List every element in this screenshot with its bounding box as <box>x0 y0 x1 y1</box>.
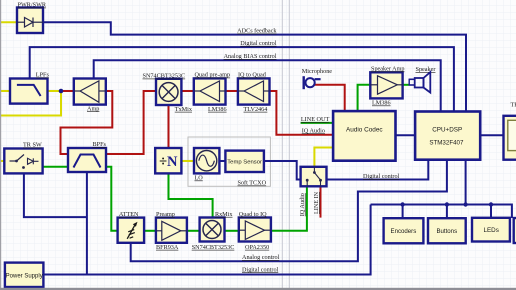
wire yellow divider N to LO <box>181 160 194 162</box>
IC Audio Codec <box>333 111 395 161</box>
amplifier Amp <box>74 79 106 113</box>
wire red Microphone to Audio Codec <box>315 85 345 111</box>
oscillator LO <box>194 148 219 182</box>
svg-text:Preamp: Preamp <box>156 211 175 218</box>
svg-text:SN74CBT3253C: SN74CBT3253C <box>192 244 235 251</box>
svg-text:LINE IN: LINE IN <box>313 191 320 214</box>
wire green Preamp to RxMix <box>187 230 200 232</box>
svg-text:LINE OUT: LINE OUT <box>301 116 330 123</box>
wire red IQ Audio IQ to Quad to Audio Codec <box>270 91 334 135</box>
wire navy bus drop to Buttons <box>446 205 448 219</box>
wire green Audio Codec to Speaker Amp <box>358 85 371 111</box>
svg-text:Speaker: Speaker <box>416 66 436 73</box>
wire Digital control LPFs to CPU <box>30 47 454 111</box>
mixer RxMix SN74CBT3253C <box>192 211 235 251</box>
wire navy Analog control ATTEN to CPU <box>131 160 447 262</box>
wire green divider N to RxMix <box>169 173 213 217</box>
filter BPFs <box>68 141 107 172</box>
wire navy bus drop to Encoders <box>402 205 404 219</box>
wire red LINE IN stub below switch <box>320 186 322 217</box>
svg-text:TR SW: TR SW <box>23 142 42 149</box>
amplifier Speaker Amp LM386 <box>370 66 404 107</box>
svg-text:Buttons: Buttons <box>436 228 457 235</box>
wire yellow TR SW antenna stub <box>0 160 4 162</box>
svg-text:LM386: LM386 <box>208 106 227 113</box>
svg-text:BPFs: BPFs <box>93 141 107 148</box>
svg-text:LO: LO <box>195 175 204 182</box>
wire navy peripheral bus <box>371 205 512 219</box>
wire red Amp to BPFs left <box>61 91 113 154</box>
svg-text:Analog control: Analog control <box>242 254 280 261</box>
divider U divN <box>155 148 181 173</box>
wire red junction to Amp <box>61 90 74 92</box>
filter LPFs <box>10 72 49 104</box>
node junction LPF output <box>59 89 64 94</box>
wire navy TR SW bottom to BPF vertical <box>24 173 87 217</box>
wire red TxMix to Quad pre-amp <box>181 90 193 92</box>
display TFT <box>504 102 516 160</box>
svg-text:Quad pre-amp: Quad pre-amp <box>195 72 231 79</box>
page edge left <box>0 0 1 290</box>
amplifier IQ to Quad TLV2464 <box>238 72 270 113</box>
wire red TxMix to divider N <box>168 106 170 149</box>
svg-text:OPA2350: OPA2350 <box>245 244 269 251</box>
svg-text:Analog BIAS control: Analog BIAS control <box>224 53 277 60</box>
svg-text:IQ Audio: IQ Audio <box>299 193 306 216</box>
wire yellow antenna to LPFs <box>0 90 10 92</box>
wire Analog BIAS control Amp to CPU <box>94 60 441 111</box>
svg-text:LM386: LM386 <box>372 100 391 107</box>
svg-text:SN74CBT3253C: SN74CBT3253C <box>143 73 186 80</box>
svg-text:BFR93A: BFR93A <box>156 244 179 251</box>
svg-text:PWR/SWR: PWR/SWR <box>18 2 47 9</box>
wire green IQ Audio Quad to IQ up to switch <box>271 186 307 231</box>
svg-text:ATTEN: ATTEN <box>119 211 139 218</box>
svg-text:LPFs: LPFs <box>36 72 50 79</box>
power supply Power Supply <box>5 263 44 287</box>
svg-text:Speaker Amp: Speaker Amp <box>371 66 405 73</box>
svg-text:Digital control: Digital control <box>363 173 400 180</box>
wire navy Digital control switch to CPU <box>327 160 429 180</box>
wire yellow junction down to left edge <box>0 91 61 116</box>
wire antenna yellow to PWR/SWR <box>0 21 17 23</box>
amplifier Quad to IQ OPA2350 <box>239 211 271 251</box>
wire yellow switch to Audio Codec <box>314 148 333 167</box>
wire navy bus drop to LEDs <box>490 205 492 218</box>
wire green TR SW to BPFs <box>43 166 68 168</box>
block clipped right edge <box>514 218 516 243</box>
svg-text:Digital control: Digital control <box>240 40 277 47</box>
wire green Speaker Amp to Speaker <box>403 84 410 86</box>
wire red BPFs right to TxMix <box>106 91 156 154</box>
mixer TxMix SN74CBT3253C <box>143 73 193 113</box>
speaker Speaker <box>409 66 435 93</box>
svg-text:LEDs: LEDs <box>483 227 498 234</box>
node bus junction LEDs <box>489 202 493 206</box>
block Encoders <box>384 218 424 243</box>
detector PWR/SWR <box>17 2 47 33</box>
wire ADCs feedback PWR/SWR to CPU <box>43 22 466 111</box>
attenuator ATTEN <box>118 211 145 243</box>
node bus junction Encoders <box>400 202 404 206</box>
wire green ATTEN to Preamp <box>144 230 156 232</box>
node bus junction Buttons <box>445 202 449 206</box>
svg-text:CPU+DSP: CPU+DSP <box>432 127 462 134</box>
wire navy BPFs bottom down to power line <box>86 172 88 275</box>
svg-text:Temp Sensor: Temp Sensor <box>227 160 262 166</box>
wire yellow LPFs to junction <box>48 90 62 92</box>
svg-text:Power Supply: Power Supply <box>6 273 43 279</box>
svg-text:TFT: TFT <box>511 102 516 109</box>
wire green BPFs to ATTEN <box>106 167 118 231</box>
svg-text:IQ Audio: IQ Audio <box>302 127 325 134</box>
wire red Quad pre-amp to IQ to Quad <box>226 90 238 92</box>
svg-text:Quad to IQ: Quad to IQ <box>239 211 267 218</box>
svg-text:TLV2464: TLV2464 <box>244 106 268 113</box>
block LEDs <box>472 218 510 242</box>
IC CPU+DSP STM32F407 <box>415 112 480 160</box>
page edge bottom <box>0 288 516 290</box>
block Buttons <box>428 218 466 243</box>
group frame Soft TCXO <box>188 137 270 187</box>
wire navy CPU to TFT <box>480 134 503 136</box>
microphone Microphone <box>302 68 332 89</box>
wire navy Audio Codec to CPU <box>396 134 416 136</box>
wire navy Digital control Power Supply line <box>43 205 370 275</box>
svg-text:÷N: ÷N <box>159 154 178 170</box>
svg-text:RxMix: RxMix <box>215 211 233 218</box>
svg-text:Soft TCXO: Soft TCXO <box>238 180 267 187</box>
wire navy Temp Sensor to switch <box>264 161 301 180</box>
svg-text:TxMix: TxMix <box>175 106 193 113</box>
wire green LINE OUT stub to Audio Codec <box>301 122 334 124</box>
svg-text:ADCs feedback: ADCs feedback <box>237 28 277 35</box>
svg-text:Microphone: Microphone <box>302 68 332 75</box>
amplifier Quad pre-amp LM386 <box>194 72 230 113</box>
sensor Temp Sensor <box>225 151 264 172</box>
svg-text:Digital control: Digital control <box>242 266 279 273</box>
svg-text:IQ to Quad: IQ to Quad <box>238 72 267 79</box>
svg-text:STM32F407: STM32F407 <box>429 140 464 147</box>
node bus junction CPU riser <box>463 202 467 206</box>
switch TR SW <box>4 142 42 174</box>
amplifier Preamp BFR93A <box>156 211 187 251</box>
svg-text:Encoders: Encoders <box>391 228 417 235</box>
switch audio source selector <box>301 167 327 187</box>
wire green RxMix to Quad to IQ <box>225 230 239 232</box>
svg-text:Amp: Amp <box>87 105 99 112</box>
wire navy LO to Temp Sensor <box>219 160 225 162</box>
svg-text:Audio Codec: Audio Codec <box>346 127 383 134</box>
wire navy CPU riser to bus <box>465 160 467 205</box>
